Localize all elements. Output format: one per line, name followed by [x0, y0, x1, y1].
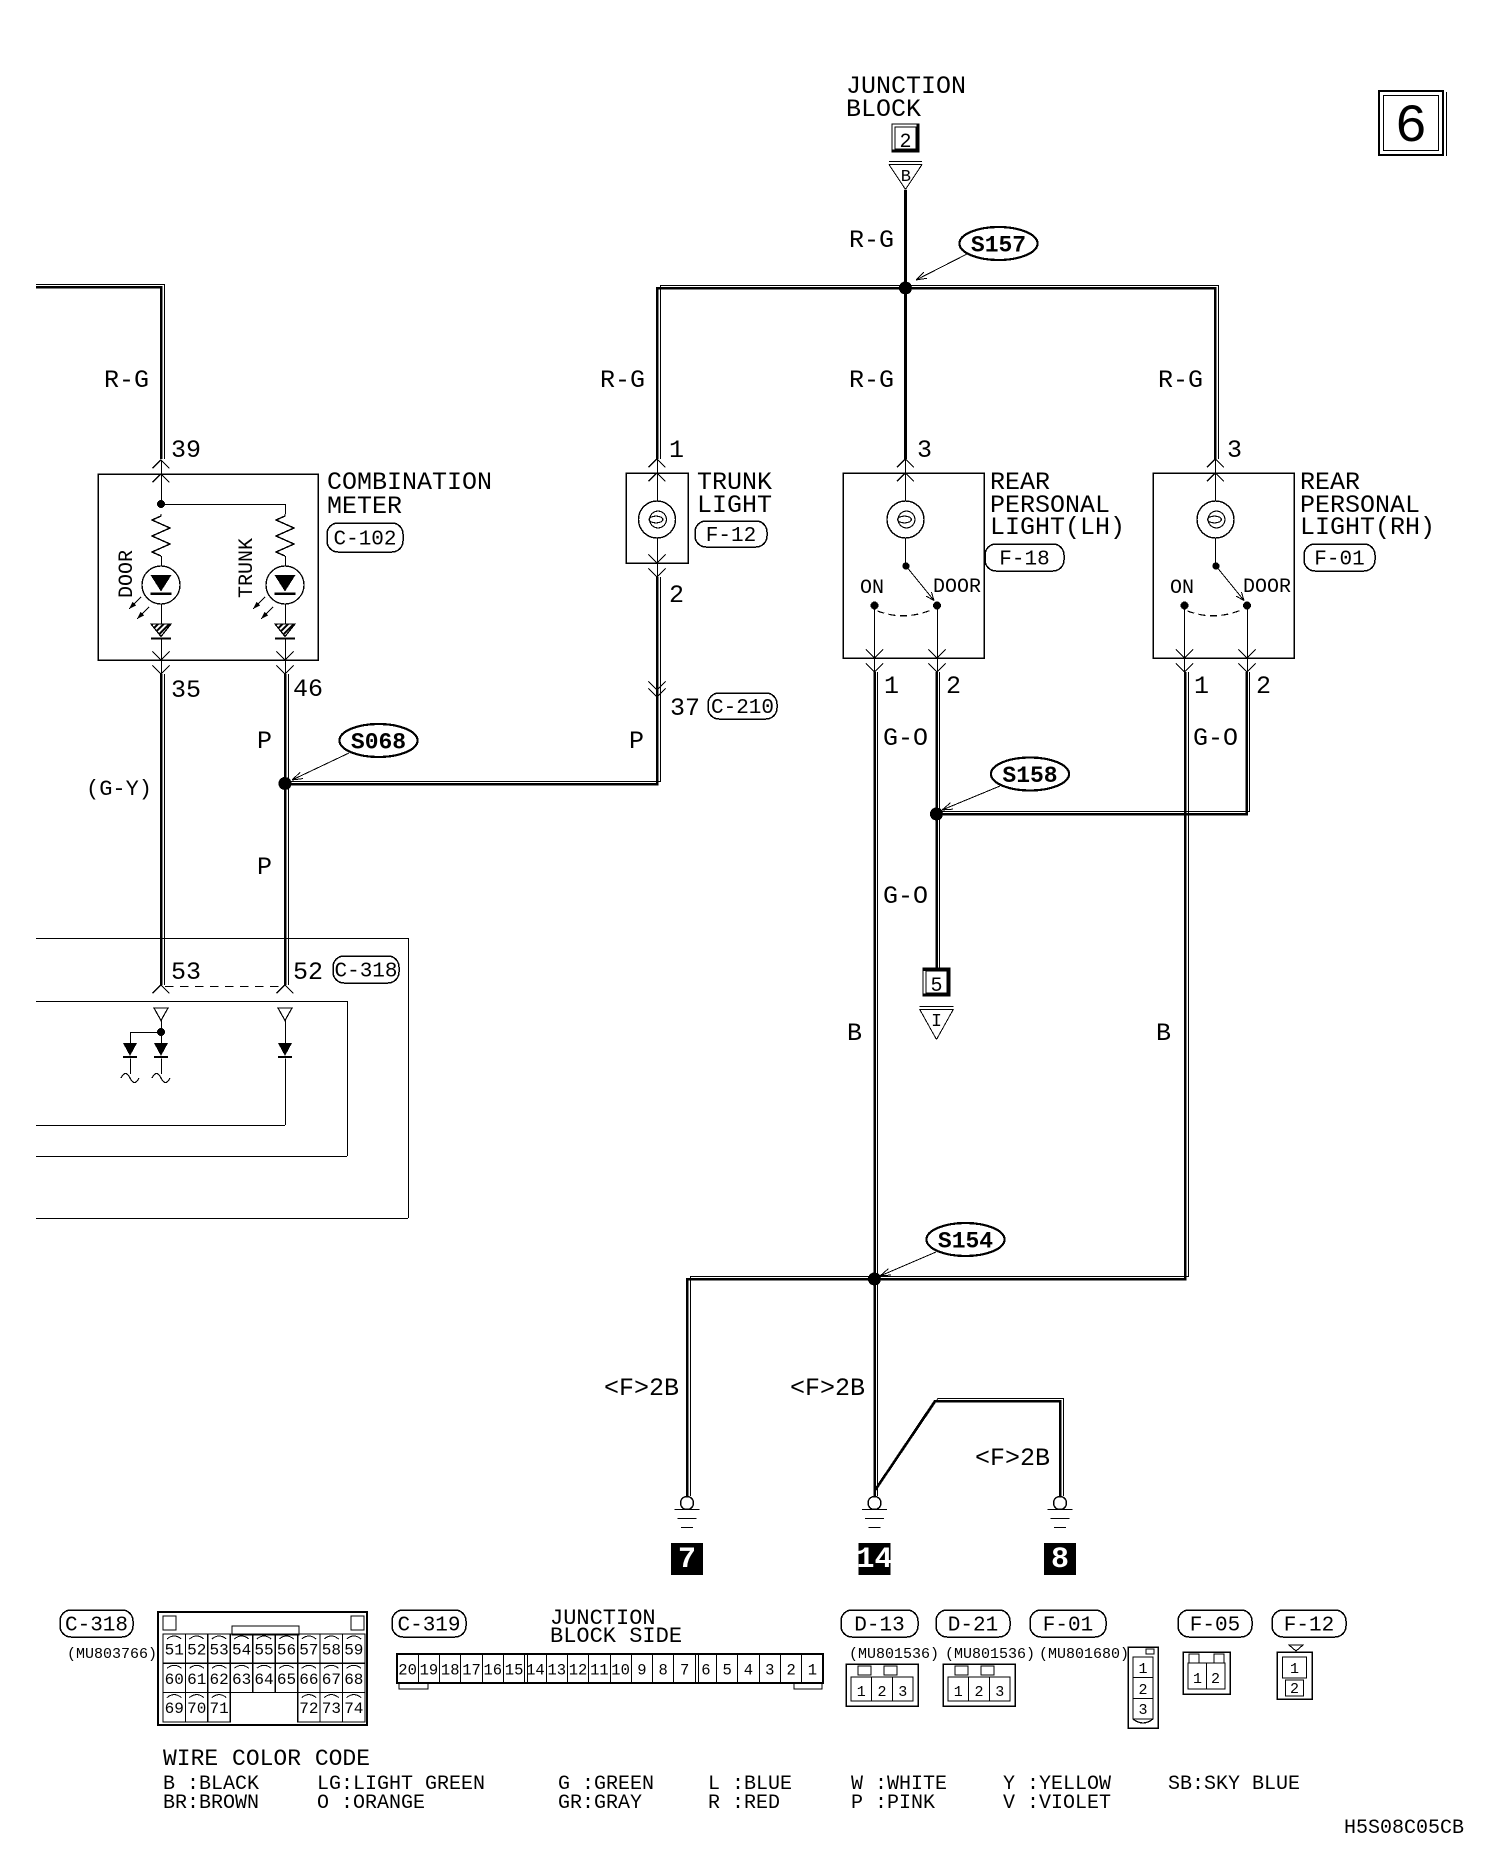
svg-text:74: 74	[344, 1700, 363, 1718]
svg-text:V :VIOLET: V :VIOLET	[1003, 1792, 1111, 1815]
svg-text:2: 2	[1290, 1681, 1299, 1698]
svg-text:BLOCK: BLOCK	[846, 95, 921, 124]
svg-text:66: 66	[299, 1671, 318, 1689]
svg-text:F-12: F-12	[706, 525, 756, 548]
svg-text:18: 18	[441, 1662, 460, 1680]
svg-text:2: 2	[946, 672, 961, 701]
svg-text:BLOCK SIDE: BLOCK SIDE	[550, 1624, 682, 1649]
svg-text:9: 9	[637, 1662, 646, 1680]
svg-text:53: 53	[171, 958, 201, 987]
svg-text:12: 12	[569, 1662, 588, 1680]
svg-text:56: 56	[277, 1642, 296, 1660]
svg-text:<F>2B: <F>2B	[604, 1374, 679, 1403]
svg-text:1: 1	[884, 672, 899, 701]
svg-text:P: P	[257, 727, 272, 756]
svg-text:2: 2	[1211, 1671, 1220, 1688]
svg-text:D-13: D-13	[854, 1615, 904, 1638]
svg-text:73: 73	[322, 1700, 341, 1718]
svg-text:G-O: G-O	[883, 882, 928, 911]
svg-text:2: 2	[974, 1684, 983, 1701]
svg-text:S154: S154	[938, 1229, 993, 1255]
svg-text:1: 1	[669, 436, 684, 465]
svg-text:10: 10	[611, 1662, 630, 1680]
svg-text:F-01: F-01	[1314, 549, 1364, 572]
svg-text:D-21: D-21	[948, 1615, 998, 1638]
svg-text:6: 6	[701, 1662, 710, 1680]
svg-text:52: 52	[187, 1642, 206, 1660]
svg-text:TRUNK: TRUNK	[236, 538, 259, 598]
svg-text:4: 4	[744, 1662, 753, 1680]
svg-text:71: 71	[209, 1700, 228, 1718]
svg-text:F-05: F-05	[1190, 1615, 1240, 1638]
svg-text:(MU801680): (MU801680)	[1039, 1646, 1129, 1663]
svg-text:1: 1	[1138, 1661, 1147, 1678]
svg-text:3: 3	[898, 1684, 907, 1701]
svg-text:57: 57	[299, 1642, 318, 1660]
svg-text:3: 3	[765, 1662, 774, 1680]
svg-text:C-102: C-102	[333, 529, 396, 552]
svg-text:64: 64	[254, 1671, 273, 1689]
svg-text:O :ORANGE: O :ORANGE	[317, 1792, 425, 1815]
svg-text:SB:SKY BLUE: SB:SKY BLUE	[1168, 1773, 1300, 1796]
svg-text:<F>2B: <F>2B	[790, 1374, 865, 1403]
svg-text:2: 2	[1256, 672, 1271, 701]
svg-text:46: 46	[293, 675, 323, 704]
svg-text:17: 17	[462, 1662, 481, 1680]
svg-text:5: 5	[930, 975, 942, 998]
svg-text:(MU801536): (MU801536)	[849, 1646, 939, 1663]
svg-text:1: 1	[1290, 1661, 1299, 1678]
svg-text:S157: S157	[971, 233, 1026, 259]
svg-text:3: 3	[1138, 1702, 1147, 1719]
svg-text:ON: ON	[1170, 577, 1194, 600]
svg-text:51: 51	[165, 1642, 184, 1660]
svg-text:R :RED: R :RED	[708, 1792, 780, 1815]
svg-text:LIGHT(LH): LIGHT(LH)	[990, 513, 1125, 542]
svg-text:F-18: F-18	[999, 549, 1049, 572]
svg-text:69: 69	[165, 1700, 184, 1718]
svg-text:3: 3	[995, 1684, 1004, 1701]
svg-text:C-318: C-318	[334, 961, 397, 984]
svg-text:1: 1	[1193, 1671, 1202, 1688]
svg-text:8: 8	[659, 1662, 668, 1680]
svg-text:H5S08C05CB: H5S08C05CB	[1344, 1817, 1464, 1840]
svg-text:2: 2	[669, 581, 684, 610]
svg-text:R-G: R-G	[1158, 366, 1203, 395]
svg-text:60: 60	[165, 1671, 184, 1689]
svg-text:2: 2	[786, 1662, 795, 1680]
svg-text:DOOR: DOOR	[1243, 576, 1291, 599]
svg-text:59: 59	[344, 1642, 363, 1660]
svg-text:R-G: R-G	[104, 366, 149, 395]
svg-text:35: 35	[171, 676, 201, 705]
svg-text:S068: S068	[351, 730, 406, 756]
svg-text:C-319: C-319	[397, 1615, 460, 1638]
svg-text:65: 65	[277, 1671, 296, 1689]
svg-text:(MU803766): (MU803766)	[67, 1646, 157, 1663]
svg-text:39: 39	[171, 436, 201, 465]
svg-text:1: 1	[808, 1662, 817, 1680]
svg-text:GR:GRAY: GR:GRAY	[558, 1792, 642, 1815]
svg-text:52: 52	[293, 958, 323, 987]
svg-text:S158: S158	[1002, 763, 1057, 789]
svg-text:I: I	[931, 1012, 942, 1032]
svg-text:B: B	[901, 168, 911, 187]
svg-text:19: 19	[420, 1662, 439, 1680]
svg-text:<F>2B: <F>2B	[975, 1444, 1050, 1473]
svg-text:67: 67	[322, 1671, 341, 1689]
svg-text:G-O: G-O	[1193, 724, 1238, 753]
svg-text:53: 53	[209, 1642, 228, 1660]
svg-text:C-210: C-210	[711, 697, 774, 720]
svg-text:R-G: R-G	[849, 366, 894, 395]
svg-text:37: 37	[670, 694, 700, 723]
svg-text:11: 11	[590, 1662, 609, 1680]
svg-text:5: 5	[722, 1662, 731, 1680]
svg-text:DOOR: DOOR	[933, 576, 981, 599]
svg-text:F-12: F-12	[1284, 1615, 1334, 1638]
svg-text:F-01: F-01	[1043, 1615, 1093, 1638]
svg-text:METER: METER	[327, 492, 402, 521]
svg-text:3: 3	[1227, 436, 1242, 465]
svg-text:2: 2	[877, 1684, 886, 1701]
svg-text:(G-Y): (G-Y)	[86, 777, 152, 802]
svg-text:(MU801536): (MU801536)	[945, 1646, 1035, 1663]
svg-text:72: 72	[299, 1700, 318, 1718]
svg-text:R-G: R-G	[600, 366, 645, 395]
svg-text:55: 55	[254, 1642, 273, 1660]
svg-text:14: 14	[856, 1543, 892, 1577]
svg-text:13: 13	[547, 1662, 566, 1680]
svg-text:DOOR: DOOR	[116, 550, 139, 598]
svg-text:G-O: G-O	[883, 724, 928, 753]
svg-text:14: 14	[526, 1662, 545, 1680]
svg-text:54: 54	[232, 1642, 251, 1660]
svg-text:16: 16	[483, 1662, 502, 1680]
svg-text:1: 1	[857, 1684, 866, 1701]
svg-text:63: 63	[232, 1671, 251, 1689]
svg-text:LIGHT(RH): LIGHT(RH)	[1300, 513, 1435, 542]
svg-text:58: 58	[322, 1642, 341, 1660]
svg-text:LIGHT: LIGHT	[697, 491, 772, 520]
svg-text:2: 2	[1138, 1682, 1147, 1699]
svg-text:BR:BROWN: BR:BROWN	[163, 1792, 259, 1815]
svg-text:B: B	[1156, 1019, 1171, 1048]
svg-text:61: 61	[187, 1671, 206, 1689]
svg-text:6: 6	[1395, 97, 1427, 158]
svg-text:P :PINK: P :PINK	[851, 1792, 935, 1815]
svg-text:20: 20	[398, 1662, 417, 1680]
svg-text:1: 1	[954, 1684, 963, 1701]
svg-text:68: 68	[344, 1671, 363, 1689]
svg-text:3: 3	[917, 436, 932, 465]
svg-text:1: 1	[1194, 672, 1209, 701]
svg-text:15: 15	[505, 1662, 524, 1680]
svg-text:8: 8	[1051, 1543, 1069, 1577]
svg-text:62: 62	[209, 1671, 228, 1689]
svg-text:P: P	[257, 853, 272, 882]
svg-text:ON: ON	[860, 577, 884, 600]
svg-text:C-318: C-318	[65, 1615, 128, 1638]
svg-text:B: B	[847, 1019, 862, 1048]
svg-text:7: 7	[680, 1662, 689, 1680]
svg-text:70: 70	[187, 1700, 206, 1718]
svg-text:7: 7	[678, 1543, 696, 1577]
svg-text:WIRE COLOR CODE: WIRE COLOR CODE	[163, 1746, 370, 1772]
svg-text:2: 2	[899, 131, 911, 154]
svg-text:P: P	[629, 727, 644, 756]
svg-text:R-G: R-G	[849, 226, 894, 255]
